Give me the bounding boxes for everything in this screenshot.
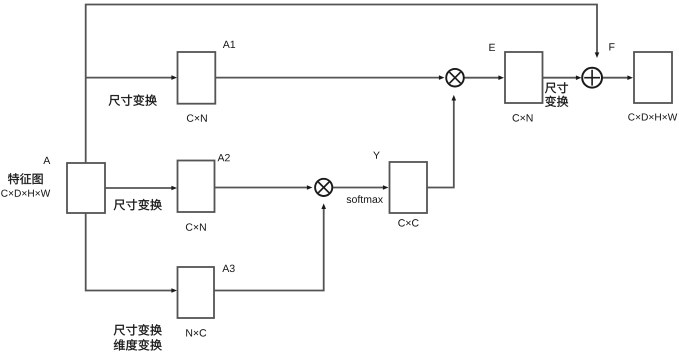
wire: A3 up to M2 xyxy=(214,208,324,291)
wire: A2 to multiply node M2 xyxy=(215,187,309,189)
wire: M1 to E xyxy=(463,77,499,79)
label CxDxHxW under F xyxy=(628,113,677,120)
arrowhead into adder xyxy=(595,52,600,58)
label softmax xyxy=(347,195,383,203)
multiply node M2 xyxy=(315,179,332,196)
arrowhead into M1 xyxy=(439,75,445,80)
arrowhead into F xyxy=(627,75,633,80)
wire: E to adder xyxy=(543,77,578,79)
label Y xyxy=(373,152,380,159)
box A2 xyxy=(178,161,215,213)
wire: A1 to multiply node M1 xyxy=(215,77,440,79)
box Y xyxy=(390,162,428,213)
arrowhead into adder xyxy=(576,75,582,80)
box E xyxy=(505,52,543,103)
multiply node M1 xyxy=(446,69,464,87)
arrowhead into A1 xyxy=(171,75,177,80)
wire: branch to A1 xyxy=(86,77,173,79)
arrowhead into M2 xyxy=(307,185,313,190)
label E xyxy=(489,44,495,51)
arrowhead into Y xyxy=(383,185,389,190)
arrowhead into A2 xyxy=(171,186,177,191)
label te-zheng-tu (feature map) xyxy=(8,173,43,184)
arrowhead into A3 xyxy=(171,288,177,293)
box F (output) xyxy=(634,52,672,103)
label size transform (middle branch) xyxy=(114,199,162,210)
arrowhead into M1 bottom xyxy=(452,95,457,101)
label size (right of E line1) xyxy=(545,82,568,93)
label A3 xyxy=(222,265,234,272)
label A2 xyxy=(218,154,230,161)
label F xyxy=(609,43,614,50)
arrowhead into E xyxy=(498,75,504,80)
label size transform (bottom branch line1) xyxy=(114,324,162,335)
label CxC under Y xyxy=(398,219,418,226)
label CxN under A1 xyxy=(187,114,207,121)
box A1 xyxy=(178,52,216,104)
label CxDxHxW under feature map label xyxy=(1,190,50,197)
label transform (right of E line2) xyxy=(545,96,568,107)
label CxN under A2 xyxy=(186,223,206,230)
label NxC under A3 xyxy=(186,329,206,336)
arrowhead into M2 bottom xyxy=(321,203,326,209)
box A3 xyxy=(178,267,215,318)
wire: A to A3 xyxy=(86,213,173,291)
label dimension transform (bottom branch line2) xyxy=(114,339,162,350)
wire: adder to F xyxy=(602,77,628,79)
label CxN under E xyxy=(513,114,533,121)
wire: A top rail to adder xyxy=(86,5,597,164)
wire: Y up to M1 xyxy=(427,100,454,188)
box A (input feature map) xyxy=(67,163,105,213)
wire: M2 to Y xyxy=(332,187,384,189)
label A1 xyxy=(223,41,235,48)
wire: A to A2 xyxy=(105,187,173,189)
label A xyxy=(43,157,50,164)
adder node xyxy=(582,68,602,88)
label size transform (top branch) xyxy=(109,94,157,105)
